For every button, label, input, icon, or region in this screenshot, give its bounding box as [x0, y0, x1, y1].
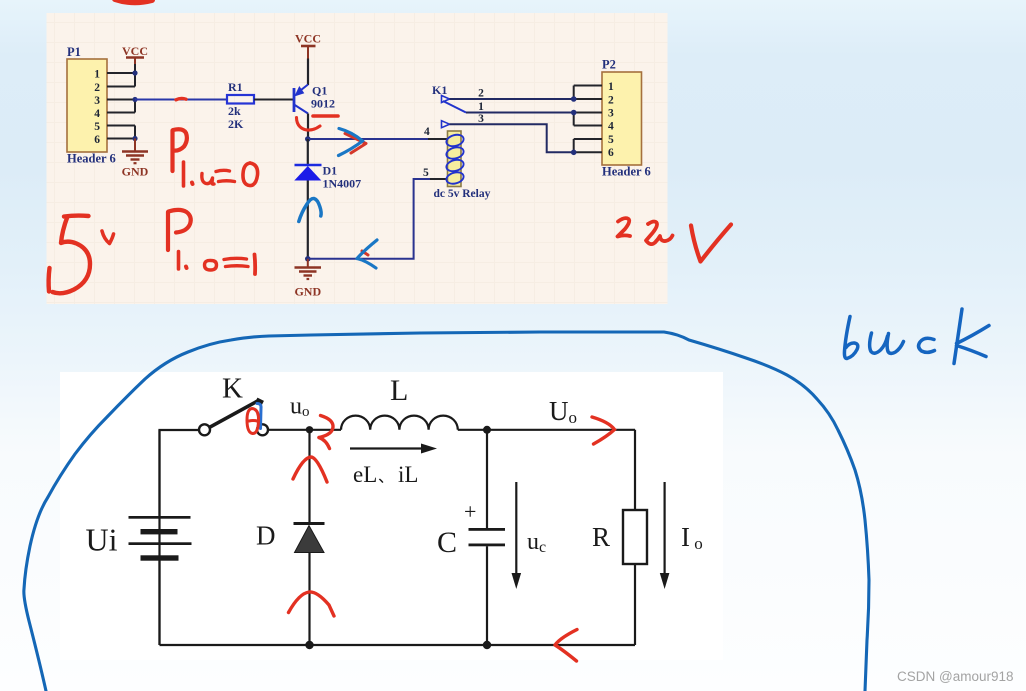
node C bottom [483, 641, 491, 649]
svg-text:GND: GND [122, 165, 149, 179]
svg-text:1N4007: 1N4007 [323, 177, 362, 191]
svg-text:D1: D1 [323, 164, 338, 178]
svg-text:CSDN @amour918: CSDN @amour918 [897, 669, 1014, 684]
svg-text:4: 4 [608, 121, 614, 133]
ink red-blue arrow right of Q1 node [339, 129, 367, 156]
svg-text:2: 2 [478, 88, 484, 100]
ink red caret above D [293, 457, 327, 482]
ink blue word buck [844, 309, 989, 364]
svg-text:VCC: VCC [122, 44, 148, 58]
svg-text:5: 5 [608, 134, 614, 146]
wire node down to D1 [307, 139, 309, 164]
power VCC (Q1) [295, 32, 321, 59]
wire buck top-left [160, 430, 200, 645]
svg-text:Ui: Ui [86, 522, 118, 558]
ink blue squiggle above GND node [299, 198, 321, 221]
node uo [290, 394, 313, 434]
schematic sheet background [47, 13, 668, 304]
header P1 [67, 45, 116, 166]
node D bottom [305, 641, 313, 649]
ink red annotation P1.o=1 [168, 210, 255, 274]
svg-text:+: + [464, 499, 476, 524]
svg-text:、: 、 [378, 469, 394, 486]
svg-text:P1: P1 [67, 45, 81, 59]
relay contacts K1 [432, 83, 466, 128]
wire R1 to Q1 base [254, 99, 293, 101]
svg-text:4: 4 [94, 108, 100, 120]
arrow Io [660, 482, 703, 589]
svg-text:D: D [256, 521, 276, 551]
wire buck bottom [160, 644, 636, 646]
capacitor C [437, 430, 505, 645]
wire K1 pin1 to P2 [466, 101, 574, 113]
resistor R1 [227, 80, 254, 131]
ground GND (P1) [122, 139, 149, 179]
svg-text:9012: 9012 [311, 97, 335, 111]
power VCC (P1) [122, 44, 148, 64]
battery Ui [86, 430, 192, 645]
svg-text:1: 1 [608, 81, 614, 93]
svg-text:3: 3 [608, 108, 614, 120]
ink red mark at uo node [319, 416, 333, 449]
ink red smear top edge [115, 0, 152, 2]
svg-text:Q1: Q1 [312, 84, 327, 98]
svg-text:R1: R1 [228, 80, 243, 94]
svg-text:Header 6: Header 6 [602, 165, 651, 179]
node at C top [483, 426, 491, 434]
wire Q1 collector down to node [307, 114, 309, 140]
svg-text:1: 1 [94, 69, 100, 81]
svg-text:2K: 2K [228, 117, 244, 131]
wire K1 pin3 to P2 (jog) [450, 113, 574, 152]
svg-text:GND: GND [294, 285, 321, 299]
ink red annotation 220V [618, 218, 732, 261]
svg-text:5: 5 [94, 121, 100, 133]
wire switch to node uo [268, 429, 341, 431]
ink red tick on P1.3 wire [176, 98, 186, 99]
svg-text:6: 6 [608, 147, 614, 159]
wire VCC to Q1 emitter [307, 59, 309, 86]
switch K [199, 373, 268, 436]
svg-text:1: 1 [478, 101, 484, 113]
wire D1 anode down to ground node [307, 181, 309, 259]
ink red arrow at Uo [592, 417, 615, 444]
ink red smile under Q1 [297, 118, 321, 131]
label Uo [549, 396, 577, 427]
ground GND (main) [294, 259, 321, 299]
inductor L [341, 374, 458, 430]
svg-text:3: 3 [478, 113, 484, 125]
ink red caret below D [289, 592, 335, 616]
svg-text:Header 6: Header 6 [67, 152, 116, 166]
svg-text:6: 6 [94, 134, 100, 146]
ink red arrow on bottom wire [555, 630, 577, 662]
wire ground node to relay pin5 [308, 179, 447, 259]
buck figure white background [60, 372, 723, 660]
svg-text:R: R [592, 522, 610, 552]
transistor Q1 (PNP 9012) [294, 84, 335, 114]
ink blue enclosure blob [24, 332, 869, 691]
svg-text:eL: eL [353, 462, 377, 487]
ink blue-red arrow on GND wire [357, 240, 377, 268]
node collector junction [305, 136, 311, 142]
wire L to right column [458, 429, 635, 431]
svg-text:3: 3 [94, 95, 100, 107]
ink red annotation 5 check [49, 216, 114, 294]
svg-text:4: 4 [424, 126, 430, 138]
svg-text:dc 5v Relay: dc 5v Relay [434, 188, 491, 200]
svg-text:iL: iL [398, 462, 418, 487]
relay coil K1 (dc 5v relay) [423, 126, 491, 200]
node ground junction [305, 256, 311, 262]
resistor R [592, 430, 647, 645]
svg-text:C: C [437, 526, 457, 559]
svg-text:P2: P2 [602, 58, 616, 72]
ink red underline below 9012 [313, 114, 338, 118]
junction dots P2 bus [571, 96, 577, 155]
svg-text:2: 2 [94, 82, 100, 94]
arrow eL iL [350, 444, 437, 488]
header P2 [602, 58, 651, 179]
wire node to relay pin4 [308, 138, 447, 140]
svg-text:L: L [390, 374, 408, 407]
wire P1.3 to R1 [135, 99, 227, 101]
junction dots P1 bus [132, 70, 137, 141]
svg-text:5: 5 [423, 167, 429, 179]
watermark CSDN [897, 669, 1014, 684]
diode D [256, 430, 325, 645]
P1 pin stubs [107, 57, 135, 147]
svg-text:K1: K1 [432, 83, 447, 97]
svg-text:2k: 2k [228, 104, 241, 118]
ink red scribble at switch [247, 404, 261, 434]
svg-text:VCC: VCC [295, 32, 321, 46]
diode D1 1N4007 [294, 164, 361, 191]
svg-text:2: 2 [608, 95, 614, 107]
P2 pin stubs [574, 86, 602, 153]
svg-text:K: K [222, 373, 243, 405]
wire K1 pin2 to P2 [450, 88, 574, 100]
arrow uc [512, 482, 547, 589]
ink red annotation P1.0=0 [173, 129, 258, 186]
